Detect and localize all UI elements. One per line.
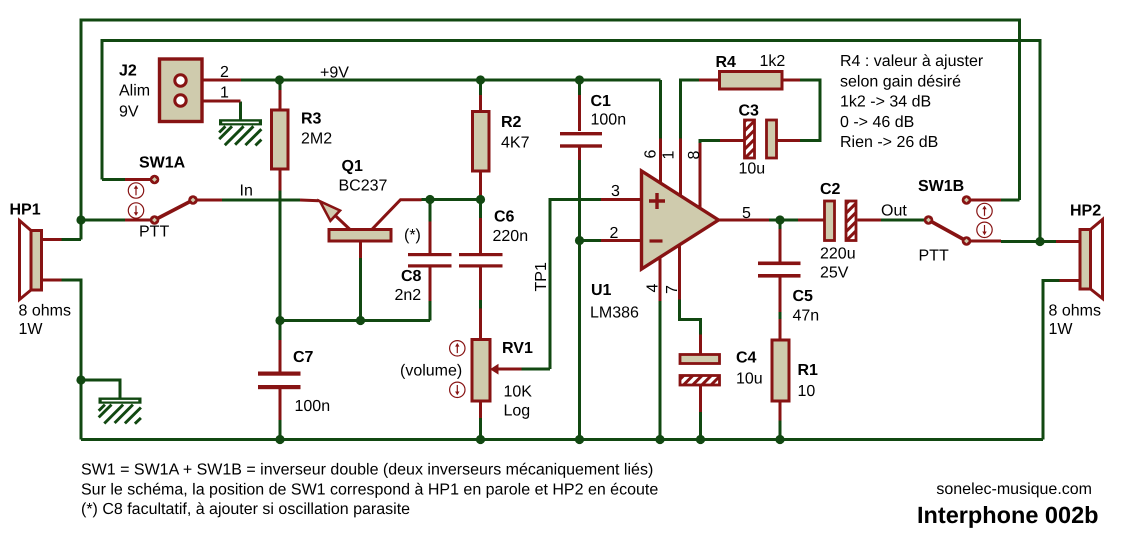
wire HP1 top terminal bbox=[62, 238, 82, 241]
capacitor C1 bottom lead bbox=[578, 148, 581, 160]
svg-text:C5: C5 bbox=[793, 288, 814, 305]
svg-text:C4: C4 bbox=[736, 350, 757, 367]
node collector/C8 bbox=[425, 195, 434, 204]
svg-text:selon gain désiré: selon gain désiré bbox=[840, 73, 961, 90]
svg-text:SW1B: SW1B bbox=[918, 178, 964, 195]
capacitor C2 left plate bbox=[825, 201, 835, 241]
capacitor C7 bottom lead bbox=[279, 389, 282, 420]
svg-text:10: 10 bbox=[798, 383, 816, 400]
svg-text:LM386: LM386 bbox=[590, 305, 639, 322]
SW1A bottom contact bbox=[150, 215, 160, 225]
svg-text:Alim: Alim bbox=[119, 82, 150, 99]
svg-text:Q1: Q1 bbox=[342, 158, 363, 175]
svg-text:C1: C1 bbox=[591, 93, 612, 110]
svg-text:47n: 47n bbox=[793, 307, 820, 324]
svg-text:SW1 = SW1A + SW1B = inverseur: SW1 = SW1A + SW1B = inverseur double (de… bbox=[81, 462, 653, 479]
svg-text:Out: Out bbox=[881, 203, 907, 220]
node C4 on ground rail bbox=[696, 435, 705, 444]
HP2 speaker body bbox=[1080, 230, 1091, 290]
capacitor C4 bottom plate (hatched) bbox=[680, 376, 720, 386]
svg-text:+9V: +9V bbox=[320, 64, 349, 81]
svg-text:1: 1 bbox=[220, 84, 229, 101]
op-amp U1 pin5 output lead bbox=[719, 219, 770, 222]
wire R4 right to C3 right bbox=[800, 80, 820, 141]
node ground stub bbox=[76, 375, 85, 384]
svg-text:Log: Log bbox=[504, 403, 531, 420]
capacitor C5 bottom lead bbox=[779, 278, 782, 312]
wire HP2 bottom terminal to ground rail bbox=[1043, 281, 1060, 440]
wire R2 top from rail bbox=[479, 80, 482, 95]
svg-text:C7: C7 bbox=[293, 349, 314, 366]
svg-text:J2: J2 bbox=[119, 63, 137, 80]
svg-text:R2: R2 bbox=[501, 114, 522, 131]
wire pin4 to ground rail bbox=[659, 301, 662, 440]
svg-text:Interphone 002b: Interphone 002b bbox=[917, 502, 1099, 528]
svg-text:4: 4 bbox=[645, 284, 662, 293]
svg-text:1k2 -> 34 dB: 1k2 -> 34 dB bbox=[840, 94, 931, 111]
wire collector node bbox=[422, 198, 481, 201]
svg-text:BC237: BC237 bbox=[339, 178, 388, 195]
SW1B arrow up circle bbox=[977, 203, 992, 218]
capacitor C2 left lead bbox=[798, 219, 824, 222]
svg-text:R3: R3 bbox=[301, 111, 322, 128]
wire RV1 bottom to ground rail bbox=[479, 418, 482, 440]
capacitor C4 top plate bbox=[680, 355, 720, 364]
wire RV1 wiper to TP1 bbox=[521, 368, 550, 371]
capacitor C2 right lead bbox=[858, 219, 882, 222]
resistor R3 top lead bbox=[279, 90, 282, 110]
svg-text:1: 1 bbox=[661, 151, 678, 160]
wire C8 top bbox=[429, 200, 432, 222]
wire J2 pin2 to +9V rail bbox=[241, 79, 661, 82]
svg-text:2: 2 bbox=[610, 225, 619, 242]
capacitor C7 top lead bbox=[279, 340, 282, 372]
svg-text:220n: 220n bbox=[493, 228, 529, 245]
transistor Q1 base bar bbox=[329, 230, 391, 242]
capacitor C5 plates bbox=[758, 262, 801, 266]
RV1 arrow down circle bbox=[450, 382, 465, 397]
capacitor C4 bottom lead bbox=[699, 385, 702, 412]
svg-text:SW1A: SW1A bbox=[139, 155, 186, 172]
wire R3 top from rail bbox=[279, 80, 282, 90]
wire SW1A top contact to loop2 bbox=[102, 178, 125, 181]
node pin5/C5 bbox=[775, 215, 784, 224]
switch SW1A lever bbox=[155, 200, 194, 220]
svg-text:In: In bbox=[240, 183, 253, 200]
resistor R2 top lead bbox=[479, 95, 482, 112]
wire C2 right to SW1B pole bbox=[881, 219, 926, 222]
svg-text:PTT: PTT bbox=[139, 224, 169, 241]
wire C8 bottom to base rail bbox=[429, 301, 432, 321]
svg-text:(volume): (volume) bbox=[400, 363, 462, 380]
wire SW1A pole to HP1 node bbox=[81, 219, 125, 222]
svg-text:5: 5 bbox=[742, 205, 751, 222]
wire loop1 HP1-top to SW1B-top (outer loop) bbox=[81, 20, 1020, 240]
svg-text:100n: 100n bbox=[295, 398, 331, 415]
svg-text:C3: C3 bbox=[739, 102, 760, 119]
resistor R3 bottom lead bbox=[279, 169, 282, 191]
wire R2 bottom to C6 top bbox=[479, 195, 482, 218]
svg-text:10K: 10K bbox=[504, 384, 533, 401]
SW1A top contact bbox=[150, 175, 160, 185]
svg-text:(*) C8 facultatif, à ajouter s: (*) C8 facultatif, à ajouter si oscillat… bbox=[81, 501, 410, 518]
wire J2 pin1 to ground symbol bbox=[239, 102, 242, 121]
node pin2/C1 bbox=[575, 236, 584, 245]
HP1 speaker body bbox=[31, 231, 42, 291]
HP2 bottom terminal lead bbox=[1060, 279, 1081, 282]
svg-text:RV1: RV1 bbox=[502, 340, 533, 357]
HP1 top terminal lead bbox=[42, 238, 62, 241]
op-amp U1 pin1 lead bbox=[679, 139, 682, 198]
svg-text:HP1: HP1 bbox=[10, 202, 41, 219]
node base rail/C7 bbox=[275, 316, 284, 325]
svg-text:TP1: TP1 bbox=[533, 262, 550, 291]
svg-text:2M2: 2M2 bbox=[301, 131, 332, 148]
node R1 on ground rail bbox=[775, 435, 784, 444]
op-amp U1 pin8 lead bbox=[699, 143, 702, 209]
capacitor C8 plates bbox=[408, 253, 452, 256]
SW1A arrow up circle bbox=[128, 183, 143, 198]
capacitor C3 right plate bbox=[767, 120, 777, 158]
resistor R1 body bbox=[772, 340, 789, 401]
svg-text:9V: 9V bbox=[119, 103, 139, 120]
wire C5 bottom to R1 top bbox=[779, 312, 782, 319]
transistor Q1 emitter arrow bbox=[320, 201, 340, 221]
svg-text:R4: R4 bbox=[716, 54, 737, 71]
op-amp U1 minus sign bbox=[650, 239, 663, 242]
wire TP1 vertical and pin3 bbox=[550, 200, 601, 370]
SW1B bottom contact bbox=[962, 236, 972, 246]
svg-text:4K7: 4K7 bbox=[501, 135, 530, 152]
wire pin8 corner to C3 left bbox=[700, 141, 720, 144]
node RV1 on ground rail bbox=[476, 435, 485, 444]
RV1 arrow up circle bbox=[450, 341, 465, 356]
wire pin1 riser to R4 bbox=[681, 80, 700, 139]
capacitor C3 left plate (hatched) bbox=[745, 120, 755, 158]
svg-text:25V: 25V bbox=[820, 265, 849, 282]
svg-text:8 ohms: 8 ohms bbox=[19, 303, 71, 320]
svg-text:C6: C6 bbox=[494, 209, 515, 226]
switch SW1B top contact wire bbox=[970, 199, 1001, 202]
connector J2 body bbox=[160, 59, 203, 122]
J2 pin 2 circle bbox=[175, 75, 186, 86]
potentiometer RV1 bottom lead bbox=[479, 401, 482, 418]
J2 pin2 lead bbox=[186, 79, 241, 82]
RV1 wiper arrowhead bbox=[490, 364, 499, 375]
transistor Q1 collector line bbox=[372, 200, 422, 230]
op-amp U1 pin4 lead bbox=[659, 256, 662, 301]
capacitor C1 top lead bbox=[578, 95, 581, 131]
capacitor C4 top lead bbox=[699, 335, 702, 355]
svg-text:sonelec-musique.com: sonelec-musique.com bbox=[936, 481, 1092, 498]
resistor R4 body bbox=[720, 72, 783, 90]
switch SW1B bottom contact wire bbox=[970, 240, 1001, 243]
svg-text:R1: R1 bbox=[798, 362, 819, 379]
transistor Q1 emitter line bbox=[332, 213, 350, 230]
node R2/C6 bbox=[476, 195, 485, 204]
svg-text:1W: 1W bbox=[1049, 321, 1074, 338]
svg-text:R4 : valeur à ajuster: R4 : valeur à ajuster bbox=[840, 53, 984, 70]
capacitor C8 top lead bbox=[429, 222, 432, 254]
J2 pin 1 circle bbox=[175, 95, 186, 106]
RV1 wiper shaft bbox=[497, 368, 521, 371]
node J2/R3 on +9V rail bbox=[275, 75, 284, 84]
switch SW1A pole wire bbox=[125, 219, 151, 222]
node HP2/SW1B bbox=[1035, 237, 1044, 246]
wire loop2 SW1A-top to HP2-top (inner loop) bbox=[102, 41, 1040, 242]
wire C6 bottom to RV1 bbox=[479, 300, 482, 309]
wire pin7 jog to C4 bbox=[680, 300, 701, 335]
wire Q1 base lead lower bbox=[359, 258, 362, 321]
op-amp U1 triangle bbox=[642, 171, 719, 269]
svg-text:1W: 1W bbox=[19, 321, 44, 338]
wire pin5 node bbox=[769, 219, 798, 222]
resistor R1 bottom lead bbox=[779, 401, 782, 421]
svg-text:6: 6 bbox=[643, 150, 660, 159]
wire C1 bottom through pin2 node to ground rail bbox=[578, 160, 581, 440]
resistor R2 body bbox=[473, 112, 490, 172]
node C7 on ground rail bbox=[275, 435, 284, 444]
node C1 on ground rail bbox=[575, 435, 584, 444]
resistor R3 body bbox=[272, 110, 289, 169]
node C1 on +9V rail bbox=[575, 75, 584, 84]
svg-text:C8: C8 bbox=[401, 268, 422, 285]
wire ground stub left bbox=[81, 380, 120, 398]
op-amp U1 pin7 lead bbox=[678, 244, 681, 300]
capacitor C6 bottom lead bbox=[479, 268, 482, 301]
wire C7 bottom to ground rail bbox=[279, 420, 282, 440]
wire base rail C7-node to C8 corner bbox=[280, 319, 430, 322]
SW1B arrow down circle bbox=[977, 222, 992, 237]
svg-text:U1: U1 bbox=[591, 282, 612, 299]
wire ground rail bbox=[81, 438, 1043, 441]
svg-text:Sur le schéma, la position de: Sur le schéma, la position de SW1 corres… bbox=[81, 482, 658, 499]
svg-text:1k2: 1k2 bbox=[760, 53, 786, 70]
svg-text:Rien -> 26 dB: Rien -> 26 dB bbox=[840, 134, 938, 151]
ground symbol J2 bbox=[219, 119, 262, 145]
wire C4 bottom to ground rail bbox=[699, 412, 702, 440]
resistor R4 right lead bbox=[782, 79, 800, 82]
wire node5 to C5 bbox=[779, 220, 782, 229]
capacitor C1 plates bbox=[560, 132, 602, 135]
wire HP2 top terminal bbox=[1040, 240, 1056, 243]
wire SW1B top contact to loop1 bbox=[1001, 199, 1020, 202]
svg-text:220u: 220u bbox=[820, 246, 856, 263]
transistor Q1 base lead bbox=[359, 241, 362, 258]
HP1 speaker cone bbox=[20, 221, 32, 300]
capacitor C7 plates bbox=[258, 372, 301, 376]
capacitor C5 top lead bbox=[779, 229, 782, 262]
HP2 speaker cone bbox=[1091, 220, 1103, 299]
resistor R4 left lead bbox=[699, 79, 720, 82]
HP2 top terminal lead bbox=[1056, 240, 1080, 243]
capacitor C3 left lead bbox=[720, 139, 744, 142]
SW1B top contact bbox=[962, 195, 972, 205]
svg-text:PTT: PTT bbox=[919, 248, 949, 265]
svg-text:7: 7 bbox=[664, 285, 681, 294]
SW1A arrow down circle bbox=[128, 203, 143, 218]
capacitor C6 top lead bbox=[479, 218, 482, 253]
op-amp U1 plus sign bbox=[649, 193, 665, 209]
wire In (SW1A to Q1 emitter) bbox=[222, 199, 300, 202]
svg-text:2n2: 2n2 bbox=[395, 287, 422, 304]
svg-text:10u: 10u bbox=[739, 161, 766, 178]
wire pin6 drop from +9V rail bbox=[659, 80, 662, 139]
SW1A mid contact bbox=[188, 195, 198, 205]
node HP1/SW1A pole bbox=[76, 215, 85, 224]
svg-text:HP2: HP2 bbox=[1070, 203, 1101, 220]
capacitor C3 right lead bbox=[778, 139, 801, 142]
svg-text:8: 8 bbox=[686, 151, 703, 160]
wire R1 bottom to ground rail bbox=[779, 421, 782, 440]
switch SW1A top contact wire bbox=[125, 178, 151, 181]
node base rail/Q1 bbox=[356, 316, 365, 325]
svg-text:(*): (*) bbox=[404, 227, 421, 244]
capacitor C2 right plate (hatched) bbox=[846, 201, 856, 241]
potentiometer RV1 body bbox=[472, 340, 490, 402]
svg-text:8 ohms: 8 ohms bbox=[1049, 303, 1101, 320]
svg-text:3: 3 bbox=[611, 183, 620, 200]
node pin4 on ground rail bbox=[655, 435, 664, 444]
svg-text:2: 2 bbox=[220, 64, 229, 81]
wire pin2 to op-amp bbox=[580, 239, 602, 242]
wire R3 bottom through In crossing to C7 bbox=[279, 191, 282, 341]
capacitor C6 plates bbox=[459, 253, 503, 256]
SW1B pole contact bbox=[924, 215, 934, 225]
op-amp U1 pin3 lead bbox=[601, 198, 643, 201]
svg-text:100n: 100n bbox=[591, 112, 627, 129]
svg-text:C2: C2 bbox=[820, 181, 841, 198]
node R2 on +9V rail bbox=[476, 75, 485, 84]
potentiometer RV1 top lead bbox=[479, 309, 482, 340]
wire SW1B bottom contact to HP2 node bbox=[1001, 240, 1040, 243]
svg-text:0 -> 46 dB: 0 -> 46 dB bbox=[840, 114, 914, 131]
op-amp U1 pin2 lead bbox=[601, 239, 643, 242]
transistor Q1 emitter wire from In bbox=[300, 199, 319, 203]
wire C1 top from rail bbox=[578, 80, 581, 95]
HP1 bottom terminal lead bbox=[42, 279, 62, 282]
resistor R1 top lead bbox=[779, 319, 782, 340]
ground symbol left bbox=[99, 398, 142, 424]
wire HP1 bottom terminal to ground bbox=[62, 280, 82, 440]
switch SW1B lever bbox=[929, 220, 967, 241]
resistor R2 bottom lead bbox=[479, 171, 482, 195]
switch SW1A output wire bbox=[196, 199, 222, 202]
svg-text:10u: 10u bbox=[736, 371, 763, 388]
op-amp U1 pin6 lead bbox=[659, 139, 662, 185]
capacitor C8 bottom lead bbox=[429, 268, 432, 302]
J2 pin1 lead bbox=[186, 100, 241, 103]
